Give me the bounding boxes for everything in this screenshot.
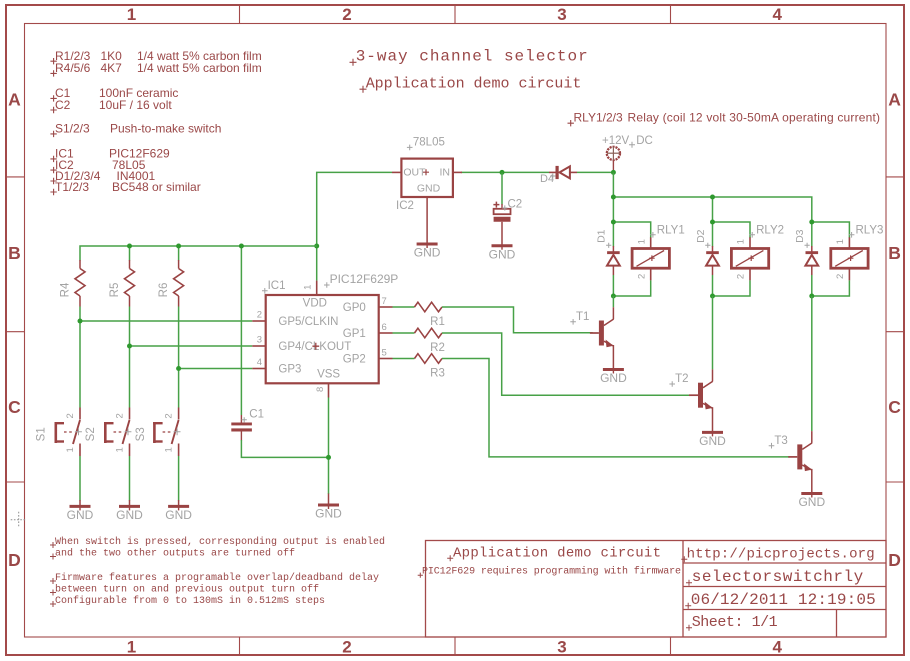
svg-text:T1/2/3: T1/2/3 [55,180,89,194]
wire RLY3 to T3 collector [811,296,813,431]
svg-text:C: C [8,397,21,417]
svg-text:D2: D2 [695,229,707,243]
svg-text:4: 4 [257,357,262,368]
svg-text:GND: GND [414,246,441,260]
resistor R6 [158,260,184,307]
svg-text:S2: S2 [85,427,97,441]
wire RLY3 coil top [812,222,850,247]
svg-text:2: 2 [342,5,351,24]
node bus C1 [239,244,244,249]
svg-text:6: 6 [382,322,387,333]
svg-text:78L05: 78L05 [413,137,445,149]
switch S1 [36,408,82,457]
node GP5 junction [78,319,83,324]
svg-text:3: 3 [257,335,262,346]
svg-text:GND: GND [798,495,825,509]
svg-text:Application demo circuit: Application demo circuit [366,75,582,92]
svg-text:T1: T1 [576,311,589,323]
wire S1 to ground [79,456,81,501]
svg-text:5: 5 [382,348,387,359]
svg-text:B: B [8,243,21,263]
svg-text:RLY3: RLY3 [856,225,884,237]
svg-text:B: B [888,243,901,263]
svg-text:R4: R4 [60,282,72,297]
svg-text:A: A [888,90,901,110]
wire RLY2 to T2 collector [712,296,714,369]
svg-text:GND: GND [417,182,441,194]
ground T2 [699,432,726,448]
svg-text:IC1: IC1 [268,280,286,292]
svg-text:DC: DC [636,135,653,147]
svg-text:RLY2: RLY2 [756,225,784,237]
svg-text:R5: R5 [109,283,121,298]
transistor T3 [769,431,812,493]
ground IC2 [414,244,441,260]
node bus junction 1 [611,195,616,200]
svg-text:1: 1 [65,447,76,452]
svg-text:Relay (coil 12 volt 30-50mA op: Relay (coil 12 volt 30-50mA operating cu… [628,111,881,125]
sheet origin marker [11,512,27,528]
svg-text:2: 2 [342,637,351,656]
node D2 bottom junction [710,294,715,299]
svg-text:GND: GND [600,371,627,385]
svg-text:GND: GND [699,434,726,448]
node bus junction 2 [710,195,715,200]
capacitor C2 [493,172,522,245]
svg-text:10uF / 16 volt: 10uF / 16 volt [99,98,172,112]
svg-text:06/12/2011 12:19:05: 06/12/2011 12:19:05 [691,591,876,609]
node D1 top junction [611,220,616,225]
svg-text:+12V: +12V [602,135,630,147]
svg-text:selectorswitchrly: selectorswitchrly [692,568,864,586]
wire GP3 net [179,307,253,408]
node D1 bottom junction [611,294,616,299]
pin numbers IC1 [257,285,387,392]
transistor T1 [570,307,613,369]
node VDD feed junction [314,244,319,249]
wire relay supply bus [613,172,811,222]
svg-text:OUT: OUT [403,167,426,179]
svg-text:3-way channel selector: 3-way channel selector [356,48,588,66]
svg-text:2: 2 [835,274,846,279]
ground T3 [798,493,825,509]
diode D1 [596,229,620,275]
ground S1 [67,500,94,522]
wire S3 to ground [178,456,180,501]
svg-text:GND: GND [116,508,143,522]
svg-text:GND: GND [489,247,516,261]
node VSS junction [326,455,331,460]
wire C1 to VSS [241,440,328,457]
svg-text:4: 4 [772,5,782,24]
IC U1 PIC12F629P [252,281,392,398]
svg-text:D: D [8,550,21,570]
svg-text:R6: R6 [158,283,170,298]
wire regulator output net [317,172,392,280]
svg-text:IC2: IC2 [396,200,414,212]
wire GP5 net [80,307,252,408]
svg-text:2: 2 [636,274,647,279]
svg-text:R2: R2 [430,342,445,354]
wire +12V input net [461,171,613,173]
node D3 bottom junction [809,294,814,299]
node D2 top junction [710,220,715,225]
svg-text:A: A [8,90,21,110]
node +12V junction [611,170,616,175]
diode D3 [794,229,818,275]
svg-text:http://picprojects.org: http://picprojects.org [687,547,875,563]
switch S2 [85,408,131,457]
ground IC1 VSS [315,494,342,521]
resistor R4 [60,260,86,307]
svg-text:C2: C2 [508,199,523,211]
svg-text:1: 1 [127,637,136,656]
wire D3 cathode net [812,275,850,296]
svg-text:Sheet: 1/1: Sheet: 1/1 [692,614,778,631]
svg-text:2: 2 [65,413,76,418]
svg-text:D1: D1 [596,229,608,243]
svg-text:GND: GND [315,507,342,521]
firmware note text block [50,536,385,607]
svg-text:C1: C1 [249,409,264,421]
wire RLY2 coil top [713,222,751,247]
svg-text:RLY1: RLY1 [657,225,685,237]
ground C2 [489,245,516,261]
svg-text:R1: R1 [430,316,445,328]
svg-text:D3: D3 [794,229,806,243]
svg-text:S1/2/3: S1/2/3 [55,122,90,136]
svg-text:IN: IN [440,167,451,179]
relay RLY1 coil [632,225,685,281]
node GP3 junction [176,366,181,371]
svg-text:2: 2 [115,413,126,418]
resistor R2 [393,328,445,354]
svg-text:C: C [888,397,901,417]
wire GP4 net [130,307,253,408]
svg-text:3: 3 [557,5,566,24]
svg-text:R4/5/6: R4/5/6 [55,61,91,75]
wire RLY1 coil top [613,222,650,247]
voltage regulator IC2 78L05 [392,137,462,243]
svg-text:VSS: VSS [317,369,340,381]
svg-text:D: D [888,550,901,570]
resistor R5 [109,260,135,307]
label PIC12F629P [324,272,398,288]
wire VSS net [328,398,330,495]
svg-text:GND: GND [67,508,94,522]
svg-text:GP0: GP0 [343,302,366,314]
svg-text:GP5/CLKIN: GP5/CLKIN [278,316,338,328]
svg-text:3: 3 [557,637,566,656]
relay RLY2 coil [731,225,784,281]
svg-text:7: 7 [382,296,387,307]
node D3 top junction [809,220,814,225]
svg-text:4K7: 4K7 [101,61,123,75]
wire R1 to T1 base [442,307,593,333]
wire D2 cathode net [713,275,751,296]
svg-text:4: 4 [772,637,782,656]
svg-text:and the two other outputs are: and the two other outputs are turned off [55,548,295,560]
wire R2 to T2 base [442,333,692,395]
resistor R3 [393,354,445,380]
sheet title text [350,48,588,93]
svg-text:GP4/CLKOUT: GP4/CLKOUT [278,341,351,353]
relay RLY3 coil [831,225,884,281]
wire S2 to ground [129,456,131,501]
svg-text:When switch is pressed, corres: When switch is pressed, corresponding ou… [55,536,385,548]
capacitor C1 [231,409,264,441]
svg-text:RLY1/2/3: RLY1/2/3 [574,111,623,125]
svg-text:8: 8 [315,387,326,392]
svg-text:1: 1 [164,447,175,452]
svg-text:1: 1 [636,239,647,244]
svg-text:1: 1 [127,5,136,24]
node C2 top junction [500,170,505,175]
svg-text:GP1: GP1 [343,328,366,340]
svg-text:1: 1 [835,239,846,244]
label IC1 [262,280,286,294]
svg-text:GP3: GP3 [278,364,301,376]
diode D4 [540,166,577,185]
svg-text:Configurable from 0 to 130mS i: Configurable from 0 to 130mS in 0.512mS … [55,595,325,607]
parts list annotation text [50,49,261,195]
ground S3 [165,500,192,522]
relay note annotation text [568,111,881,127]
svg-text:1: 1 [115,447,126,452]
node bus R6 [176,244,181,249]
svg-text:S1: S1 [36,427,48,441]
svg-text:2: 2 [736,274,747,279]
wire R3 to T3 base [442,359,790,457]
svg-text:Firmware features a programabl: Firmware features a programable overlap/… [55,572,379,584]
svg-text:BC548 or similar: BC548 or similar [112,180,201,194]
svg-text:T2: T2 [675,373,688,385]
svg-text:2: 2 [257,310,262,321]
svg-text:Push-to-make switch: Push-to-make switch [110,122,221,136]
wire RLY1 to T1 collector [612,296,614,307]
svg-text:1/4 watt 5% carbon film: 1/4 watt 5% carbon film [137,61,262,75]
switch S3 [135,408,181,457]
svg-text:1: 1 [302,285,313,290]
wire VDD bus [80,246,317,415]
supply symbol +12V [602,135,653,172]
svg-text:T3: T3 [774,435,787,447]
svg-text:S3: S3 [135,427,147,441]
title block frame [426,541,887,638]
svg-text:D4: D4 [540,173,554,185]
svg-text:GP2: GP2 [343,354,366,366]
transistor T2 [669,369,712,432]
node GP4 junction [127,344,132,349]
svg-text:between turn on and previous o: between turn on and previous output turn… [55,584,319,596]
svg-text:1: 1 [736,239,747,244]
node bus R5 [127,244,132,249]
svg-text:R3: R3 [430,367,445,379]
wire D1 cathode net [613,275,650,296]
title block text [418,546,876,632]
svg-text:PIC12F629 requires programming: PIC12F629 requires programming with firm… [422,565,681,577]
svg-text:Application demo circuit: Application demo circuit [453,546,661,562]
svg-text:2: 2 [164,413,175,418]
svg-text:GND: GND [165,508,192,522]
ground S2 [116,500,143,522]
resistor R1 [393,302,445,328]
ground T1 [600,369,627,385]
svg-text:PIC12F629P: PIC12F629P [330,272,399,286]
svg-text:VDD: VDD [303,297,327,309]
diode D2 [695,229,719,275]
svg-text:C2: C2 [55,98,71,112]
